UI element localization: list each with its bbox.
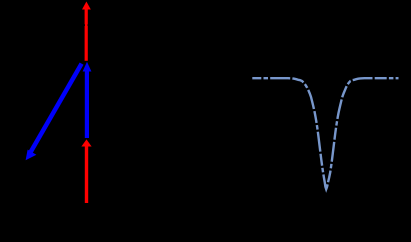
node: notch where black level line crosses red arrow [84,24,85,26]
wire: red arrow (upper), upper level to top with arrowhead [82,2,91,61]
wire: blue diagonal emission arrow down-left [26,64,82,161]
node: dashed light-blue absorption dip curve [252,78,398,189]
wire: blue vertical arrow, intermediate level up to upper level [83,62,92,138]
wire: red pump arrow (lower), ground level up to intermediate level [81,139,91,203]
